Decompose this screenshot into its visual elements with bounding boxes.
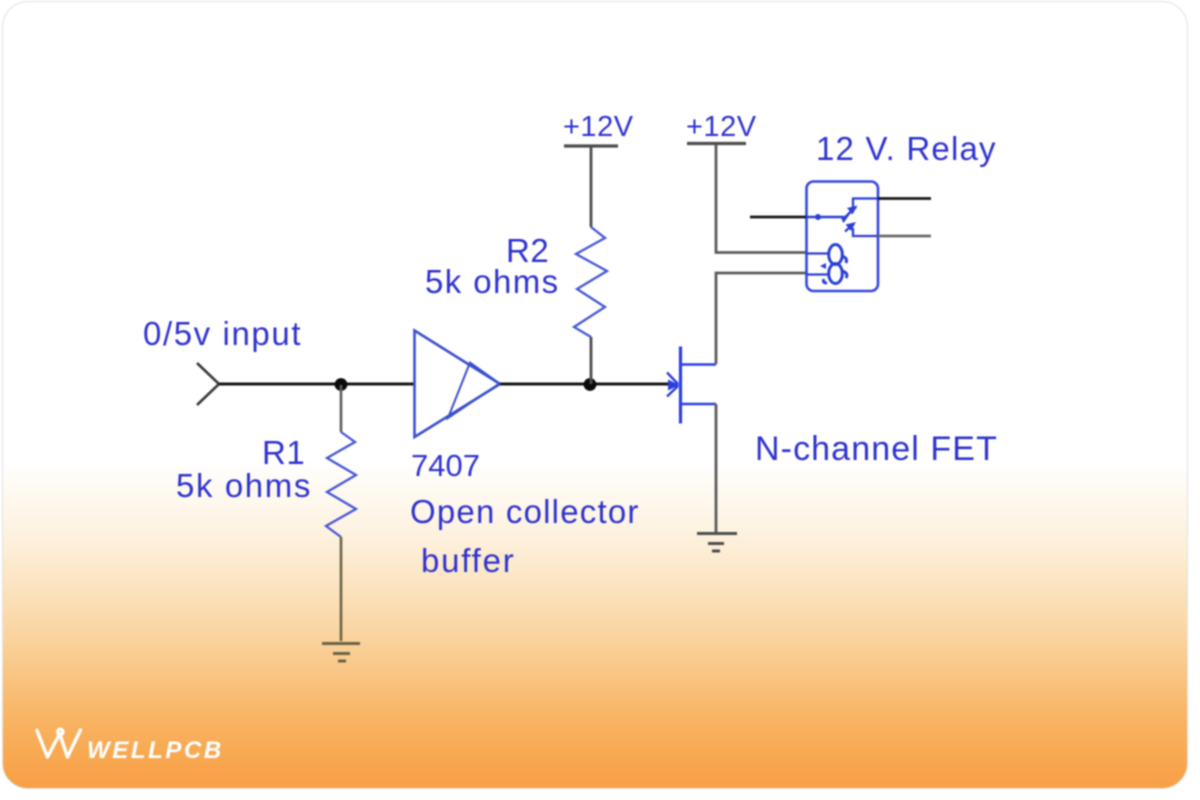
node input junction <box>335 378 348 391</box>
input connector chevron <box>197 363 219 405</box>
power +12V bar (relay) <box>687 142 746 145</box>
svg-text:+12V: +12V <box>563 111 634 143</box>
svg-text:0/5v input: 0/5v input <box>143 315 302 352</box>
svg-text:WELLPCB: WELLPCB <box>87 737 224 764</box>
ground (FET) <box>697 534 737 552</box>
wire +12V to relay coil top <box>716 145 806 253</box>
wire junction to R1 <box>340 385 343 432</box>
svg-text:5k ohms: 5k ohms <box>425 263 560 300</box>
relay NC contact to top terminal <box>853 199 878 210</box>
svg-text:R1: R1 <box>262 434 305 471</box>
relay coil L1 <box>806 245 847 284</box>
wire buffer output to FET gate <box>500 383 671 386</box>
wire relay lower contact out <box>878 235 931 238</box>
wire relay top contact out <box>878 197 931 200</box>
svg-text:12 V. Relay: 12 V. Relay <box>816 130 997 167</box>
wire relay common <box>750 216 806 219</box>
svg-text:7407: 7407 <box>411 448 480 483</box>
svg-text:5k ohms: 5k ohms <box>176 467 312 504</box>
relay switch common arm <box>806 206 858 232</box>
buffer U1 7407 open-collector <box>415 331 501 438</box>
svg-text:buffer: buffer <box>421 542 516 579</box>
relay NO contact to right terminal <box>853 228 878 236</box>
svg-text:+12V: +12V <box>686 111 757 143</box>
ground (R1) <box>322 644 360 662</box>
node buffer output junction <box>584 378 597 391</box>
power +12V bar (R2) <box>564 144 618 147</box>
wire input to buffer <box>219 383 414 386</box>
wire R1 to ground <box>340 537 343 641</box>
wire R2 to output node <box>590 337 593 384</box>
WELLPCB logo mark <box>37 729 81 757</box>
relay K1 body <box>807 182 879 292</box>
resistor R2 <box>574 227 607 337</box>
svg-text:Open collector: Open collector <box>410 493 640 530</box>
wire +12V to R2 <box>590 147 593 227</box>
wire FET drain to relay coil bottom <box>716 273 806 364</box>
svg-text:N-channel FET: N-channel FET <box>755 430 998 468</box>
resistor R1 <box>326 432 356 537</box>
transistor Q1 N-channel FET <box>667 347 716 424</box>
wire FET source to ground <box>715 404 718 532</box>
